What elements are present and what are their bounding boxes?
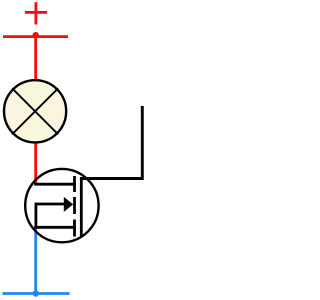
wire: positive rail to lamp (34, 37, 37, 82)
battery positive symbol + (25, 2, 47, 24)
channel bar (source) (73, 220, 76, 237)
drain lead (34, 183, 76, 186)
0V supply rail bar (blue) (3, 292, 70, 295)
channel bar (body) (73, 197, 76, 214)
positive supply rail bar (3, 35, 68, 38)
body tie vertical (35, 203, 38, 228)
gate electrode line (80, 177, 83, 237)
wire: lamp to MOSFET drain (34, 141, 37, 184)
lamp L1 (circle with X) (4, 80, 66, 142)
MOSFET body circle (25, 169, 98, 242)
gate wire (black L) (81, 106, 142, 179)
junction dot on positive rail (33, 32, 39, 38)
junction dot on 0V rail (33, 290, 39, 296)
body arrow shaft (36, 203, 65, 206)
body arrow head (64, 197, 73, 212)
MOSFET Q1 internals (34, 176, 81, 237)
channel bar (drain) (73, 176, 76, 192)
source lead (34, 226, 76, 229)
wire: MOSFET source to 0V rail (blue) (34, 227, 37, 294)
